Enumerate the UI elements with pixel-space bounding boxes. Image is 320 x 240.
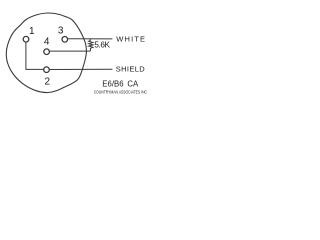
svg-text:1: 1 [29, 26, 35, 37]
svg-text:WHITE: WHITE [116, 34, 146, 43]
svg-text:COUNTRYMAN ASSOCIATES INC: COUNTRYMAN ASSOCIATES INC [94, 89, 147, 94]
svg-text:5.6K: 5.6K [94, 40, 110, 49]
svg-text:3: 3 [58, 26, 64, 37]
svg-text:4: 4 [44, 37, 50, 48]
svg-text:E6/B6CA: E6/B6CA [102, 80, 139, 89]
svg-text:SHIELD: SHIELD [116, 65, 146, 74]
svg-text:2: 2 [45, 77, 51, 88]
